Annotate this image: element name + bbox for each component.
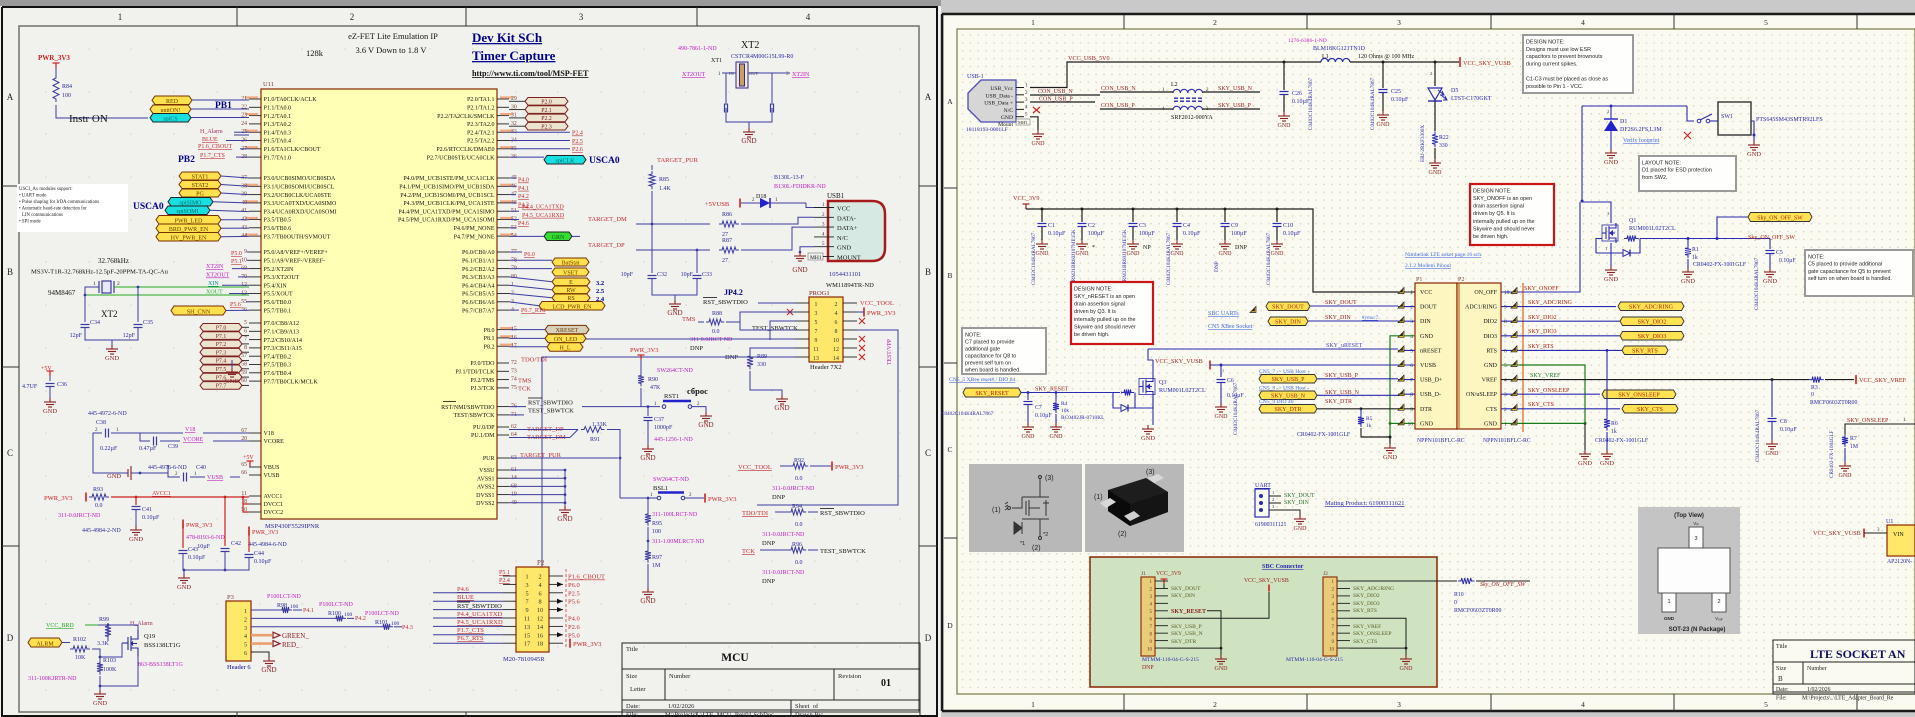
ground C32 C33 xyxy=(669,300,681,309)
svg-text:C37: C37 xyxy=(654,417,664,423)
wire P3 pin6 gnd xyxy=(251,652,269,657)
svg-text:R93: R93 xyxy=(93,487,103,493)
svg-text:3.3K: 3.3K xyxy=(97,641,110,647)
svg-text:SKY_ONSLEEP: SKY_ONSLEEP xyxy=(1528,388,1570,394)
svg-text:01: 01 xyxy=(881,678,891,689)
capacitor C26 xyxy=(1283,62,1285,90)
svg-text:PUR: PUR xyxy=(483,456,495,462)
svg-text:1/02/2026: 1/02/2026 xyxy=(668,703,695,710)
svg-text:driven by Q3. It is: driven by Q3. It is xyxy=(1074,309,1116,315)
red dashed highlight P2 xyxy=(565,569,567,647)
svg-text:P8.2: P8.2 xyxy=(484,344,495,350)
svg-text:12pF: 12pF xyxy=(123,333,136,339)
port SKY_DTR xyxy=(1259,405,1317,414)
svg-text:be driven high.: be driven high. xyxy=(1074,332,1109,338)
svg-text:SKY_DOUT: SKY_DOUT xyxy=(1325,300,1357,306)
svg-text:P2.2: P2.2 xyxy=(541,116,552,122)
svg-text:C5: C5 xyxy=(1776,250,1783,256)
svg-text:P6.6/CB6/A6: P6.6/CB6/A6 xyxy=(462,300,495,306)
capacitor C33 10pF xyxy=(693,276,702,279)
svg-text:SH_CNN: SH_CNN xyxy=(187,309,211,315)
svg-text:J1: J1 xyxy=(1141,571,1146,577)
svg-text:ADC1/RING: ADC1/RING xyxy=(1465,305,1498,311)
svg-text:0.10µF: 0.10µF xyxy=(1183,231,1201,237)
svg-text:75: 75 xyxy=(511,385,517,391)
ground C3 xyxy=(1127,240,1139,249)
svg-text:self turn on when board is han: self turn on when board is handled. xyxy=(1808,276,1892,282)
capacitor C34 xyxy=(81,325,90,328)
net SKY_RTS xyxy=(1519,349,1622,351)
svg-text:Timer Capture: Timer Capture xyxy=(472,48,556,63)
ground C7 xyxy=(1022,423,1034,432)
svg-text:DIO3: DIO3 xyxy=(1483,334,1497,340)
svg-text:P4.6/PM_NONE: P4.6/PM_NONE xyxy=(454,226,495,232)
svg-text:TARGET_PUR: TARGET_PUR xyxy=(657,157,699,164)
svg-text:CN5_5 XBee reset# / DIO 84: CN5_5 XBee reset# / DIO 84 xyxy=(949,377,1016,383)
svg-text:NPPN101BFLC-RC: NPPN101BFLC-RC xyxy=(1417,438,1465,444)
svg-text:DNP: DNP xyxy=(1142,665,1154,671)
svg-text:nRESET: nRESET xyxy=(1420,348,1442,354)
svg-text:Number: Number xyxy=(669,673,691,680)
svg-text:P2.5: P2.5 xyxy=(568,590,580,597)
svg-text:*: * xyxy=(1092,245,1095,251)
svg-text:1276-6386-1-ND: 1276-6386-1-ND xyxy=(1288,38,1327,44)
left sheet top ruler ticks xyxy=(2,7,937,717)
svg-text:GND: GND xyxy=(837,245,851,252)
ground Q1 xyxy=(1605,266,1617,275)
svg-text:TMS: TMS xyxy=(682,316,696,323)
wires USB1 pins xyxy=(806,203,814,208)
svg-text:prevent self turn on: prevent self turn on xyxy=(965,360,1011,366)
resistor R5 1k xyxy=(1360,409,1362,414)
ground R7 xyxy=(1839,462,1851,471)
svg-text:2: 2 xyxy=(1410,305,1413,311)
svg-text:6: 6 xyxy=(244,651,247,657)
wire R84 to spiCS net xyxy=(56,105,148,118)
svg-text:C0402C104K4RAL7867: C0402C104K4RAL7867 xyxy=(1754,257,1760,310)
svg-text:P6.7_RTS: P6.7_RTS xyxy=(521,308,545,314)
svg-text:VCC_3V9: VCC_3V9 xyxy=(1156,571,1181,577)
svg-text:3.6 V Down to 1.8 V: 3.6 V Down to 1.8 V xyxy=(355,45,427,55)
svg-text:2: 2 xyxy=(117,281,120,287)
svg-text:U1: U1 xyxy=(1886,519,1893,525)
svg-text:SKY_VREF: SKY_VREF xyxy=(1530,373,1561,379)
svg-text:R7: R7 xyxy=(1850,436,1857,442)
right ruler ticks xyxy=(944,15,1857,711)
port PWR_LED xyxy=(156,216,221,225)
svg-text:M:\Projects\..\LTE_MCU_Rev01.S: M:\Projects\..\LTE_MCU_Rev01.SchDoc xyxy=(665,712,774,717)
svg-text:1: 1 xyxy=(815,302,818,308)
svg-text:VSET: VSET xyxy=(563,270,578,276)
no-connect x marks PROG1 xyxy=(787,309,793,315)
ground RST1 xyxy=(700,412,712,421)
svg-text:GND: GND xyxy=(698,421,713,429)
svg-text:445-4984-2-ND: 445-4984-2-ND xyxy=(82,528,121,534)
svg-text:P7.1: P7.1 xyxy=(216,334,227,340)
svg-text:AVCC1: AVCC1 xyxy=(152,491,171,497)
svg-text:P2.6: P2.6 xyxy=(568,624,580,631)
svg-text:GND: GND xyxy=(1294,526,1308,532)
svg-text:P7.2: P7.2 xyxy=(216,342,227,348)
svg-text:0.0: 0.0 xyxy=(795,560,803,566)
svg-text:4: 4 xyxy=(1581,700,1585,709)
svg-text:P2.4: P2.4 xyxy=(499,578,510,584)
svg-text:16: 16 xyxy=(537,632,543,639)
svg-text:DVSS1: DVSS1 xyxy=(476,493,494,499)
ground crystal xyxy=(106,345,118,354)
svg-text:H_Alarm: H_Alarm xyxy=(130,621,153,627)
svg-text:M:\Projects\..\LTE_Adapter_Boa: M:\Projects\..\LTE_Adapter_Board_Re xyxy=(1802,696,1894,702)
svg-text:5: 5 xyxy=(815,320,818,326)
svg-text:490-7861-1-ND: 490-7861-1-ND xyxy=(678,46,717,52)
note C5 box xyxy=(1805,250,1913,296)
resonator XT1 symbol xyxy=(736,62,748,88)
svg-text:(2): (2) xyxy=(1032,545,1041,552)
svg-text:0.10µF: 0.10µF xyxy=(1048,231,1066,237)
svg-text:TEST_SBWTCK: TEST_SBWTCK xyxy=(752,325,798,332)
svg-text:SKY_ADC/RING: SKY_ADC/RING xyxy=(1629,305,1674,311)
svg-text:VCORE: VCORE xyxy=(183,437,204,443)
port group P7.4-P7.7 xyxy=(200,357,242,365)
svg-text:R10: R10 xyxy=(1454,592,1464,598)
svg-text:P6.2/CB2/A2: P6.2/CB2/A2 xyxy=(462,267,495,273)
ground R22 xyxy=(1429,159,1441,168)
svg-text:SKY_ONOFF: SKY_ONOFF xyxy=(1524,286,1559,292)
design note SKY_ONOFF box xyxy=(1470,184,1554,245)
svg-text:0.0: 0.0 xyxy=(795,522,803,528)
switch SW1 PTS645SM43SMTR92LFS xyxy=(1687,106,1694,121)
svg-text:B130L-FDIDKR-ND: B130L-FDIDKR-ND xyxy=(774,184,826,190)
svg-text:1000pF: 1000pF xyxy=(654,425,673,431)
gate resistor Q1 xyxy=(1624,236,1639,242)
svg-text:24: 24 xyxy=(241,121,247,127)
svg-text:P5.4/XIN: P5.4/XIN xyxy=(264,283,288,289)
ground P3 xyxy=(263,657,275,666)
svg-text:LIN communications: LIN communications xyxy=(22,213,63,218)
capacitor C9 xyxy=(1224,208,1227,211)
svg-text:C33: C33 xyxy=(702,272,712,278)
svg-text:Size: Size xyxy=(1776,666,1787,672)
svg-text:A: A xyxy=(947,97,953,106)
svg-text:MOUNT: MOUNT xyxy=(837,255,861,262)
svg-text:SKY_DIO2: SKY_DIO2 xyxy=(1353,593,1380,599)
svg-text:Drawn By:: Drawn By: xyxy=(795,712,824,717)
svg-text:74: 74 xyxy=(511,377,517,383)
svg-text:C1-C3 must be placed as close: C1-C3 must be placed as close as xyxy=(1526,76,1608,82)
svg-text:SW264CT-ND: SW264CT-ND xyxy=(657,368,693,374)
svg-text:SOT-23 (N Package): SOT-23 (N Package) xyxy=(1669,627,1726,633)
svg-text:P3.0/UCB0SIMO/UCB0SDA: P3.0/UCB0SIMO/UCB0SDA xyxy=(264,176,337,182)
ground C9 xyxy=(1219,240,1231,249)
wire usb branch xyxy=(651,223,654,226)
svg-text:SKY_DOUT: SKY_DOUT xyxy=(1272,305,1304,311)
wires XT1 xyxy=(722,72,736,74)
port spiCS xyxy=(150,114,191,123)
wire C38 to V18 xyxy=(111,432,183,434)
svg-text:P3.7/TB0OUTH/SVMOUT: P3.7/TB0OUTH/SVMOUT xyxy=(264,234,331,240)
svg-text:• SPI mode: • SPI mode xyxy=(19,220,41,225)
svg-text:DATA-: DATA- xyxy=(837,215,856,222)
resistor R103 xyxy=(97,660,103,675)
ground crystal area2 xyxy=(231,360,233,368)
svg-text:10: 10 xyxy=(833,338,839,344)
svg-text:P1.1/TA0.0: P1.1/TA0.0 xyxy=(264,106,292,112)
svg-text:GND: GND xyxy=(1036,251,1050,257)
svg-text:11: 11 xyxy=(813,347,819,353)
svg-text:ON_OFF: ON_OFF xyxy=(1474,290,1497,296)
svg-text:P1.4/TA0.3: P1.4/TA0.3 xyxy=(264,130,292,136)
svg-text:GND: GND xyxy=(43,408,57,415)
svg-text:GND: GND xyxy=(105,355,119,362)
svg-text:gate capacitance for Q5 to pre: gate capacitance for Q5 to prevent xyxy=(1808,269,1891,275)
port SKY_DIN xyxy=(1268,317,1308,326)
ground P2 gnd1 xyxy=(1579,450,1591,459)
svg-text:VCC_USB_5V0: VCC_USB_5V0 xyxy=(1068,55,1110,62)
svg-text:2: 2 xyxy=(1213,700,1217,709)
svg-text:P100LCT-ND: P100LCT-ND xyxy=(319,602,353,608)
svg-text:P6.3/CB3/A3: P6.3/CB3/A3 xyxy=(462,275,495,281)
svg-text:VCC_3V9: VCC_3V9 xyxy=(1013,195,1039,202)
svg-text:SBC UARTs: SBC UARTs xyxy=(1208,311,1239,317)
svg-text:http://www.ti.com/tool/MSP-FET: http://www.ti.com/tool/MSP-FET xyxy=(472,69,589,78)
svg-text:8: 8 xyxy=(244,345,247,351)
svg-text:additional gate: additional gate xyxy=(965,346,1000,352)
svg-text:XRESET: XRESET xyxy=(556,328,579,334)
svg-text:0.0: 0.0 xyxy=(95,503,103,509)
svg-text:USB_Vcc: USB_Vcc xyxy=(990,86,1013,92)
svg-text:120 Ohms @ 100 MHz: 120 Ohms @ 100 MHz xyxy=(1358,54,1415,60)
svg-text:STAT2: STAT2 xyxy=(192,183,209,189)
svg-text:NOTE:: NOTE: xyxy=(1808,254,1824,260)
svg-text:1: 1 xyxy=(118,12,123,22)
port SKY_USB_P xyxy=(1259,375,1317,384)
svg-text:P100LCT-ND: P100LCT-ND xyxy=(365,611,399,617)
capacitor C4 xyxy=(1176,208,1179,211)
svg-text:RUM001L02T2CL: RUM001L02T2CL xyxy=(1629,226,1676,232)
svg-text:59: 59 xyxy=(241,370,247,376)
svg-text:GND: GND xyxy=(792,266,807,274)
svg-text:GND: GND xyxy=(741,137,756,145)
svg-text:GND: GND xyxy=(1377,122,1391,128)
svg-text:P6.4/CB4/A4: P6.4/CB4/A4 xyxy=(462,283,495,289)
svg-text:65: 65 xyxy=(241,462,247,468)
svg-text:XT2OUT: XT2OUT xyxy=(206,273,230,279)
svg-text:GND: GND xyxy=(1600,460,1614,467)
svg-text:1: 1 xyxy=(1222,368,1224,373)
svg-text:SKY_CTS: SKY_CTS xyxy=(1637,407,1663,413)
wire crystal left xyxy=(85,287,99,295)
svg-text:CR0402-FX-1004GLF: CR0402-FX-1004GLF xyxy=(1829,430,1835,478)
svg-text:P5.0: P5.0 xyxy=(231,251,242,257)
U11 right VSS pins xyxy=(497,469,509,471)
svg-text:GND: GND xyxy=(1022,434,1036,440)
svg-text:Q3: Q3 xyxy=(1159,380,1166,386)
svg-text:DVCC1: DVCC1 xyxy=(264,502,284,508)
svg-text:LAYOUT NOTE:: LAYOUT NOTE: xyxy=(1642,160,1681,166)
svg-text:Instr ON: Instr ON xyxy=(69,113,108,125)
svg-text:3: 3 xyxy=(579,12,584,22)
svg-text:GND: GND xyxy=(1215,666,1229,672)
svg-text:VCC: VCC xyxy=(837,206,850,213)
left sheet inner border xyxy=(19,26,919,712)
port STAT1 xyxy=(179,172,221,180)
svg-text:RUM001L02T2CL: RUM001L02T2CL xyxy=(1159,388,1206,394)
svg-text:C36: C36 xyxy=(57,382,67,388)
wire uart pin3 gnd xyxy=(1281,510,1300,515)
svg-text:311-100KJRTR-ND: 311-100KJRTR-ND xyxy=(28,676,77,682)
svg-text:9: 9 xyxy=(1504,305,1507,311)
port spiSIMO xyxy=(168,198,213,207)
svg-text:5: 5 xyxy=(1410,348,1413,354)
svg-text:SKY_RESET: SKY_RESET xyxy=(975,391,1009,397)
svg-text:RST_SBWTDIO: RST_SBWTDIO xyxy=(703,299,748,306)
U11 right pins P8 group xyxy=(497,329,509,331)
svg-text:Sheet of: Sheet of xyxy=(795,703,819,710)
svg-text:C: C xyxy=(7,448,13,458)
transistor Q19 BSS138LT1G xyxy=(122,630,138,656)
J2 wires xyxy=(1350,580,1457,582)
svg-text:*2: *2 xyxy=(1043,532,1048,538)
svg-text:MCU: MCU xyxy=(721,652,749,664)
svg-text:P1.3/TA0.2: P1.3/TA0.2 xyxy=(264,122,292,128)
svg-text:internally pulled up on the: internally pulled up on the xyxy=(1473,219,1534,225)
svg-text:P2.6/RTCCLK/DMAE0: P2.6/RTCCLK/DMAE0 xyxy=(436,147,494,153)
ground USB1 xyxy=(800,247,814,252)
svg-text:10k: 10k xyxy=(1061,408,1069,414)
svg-text:C1: C1 xyxy=(1048,223,1055,229)
svg-text:3: 3 xyxy=(244,626,247,632)
MCU U11 MSP430F5529IPNR body xyxy=(261,89,497,519)
svg-text:C4: C4 xyxy=(1183,223,1190,229)
svg-text:ON/uSLEEP: ON/uSLEEP xyxy=(1466,392,1498,398)
svg-text:MSP430F5529IPNR: MSP430F5529IPNR xyxy=(265,523,320,530)
svg-text:0.10µF: 0.10µF xyxy=(142,515,160,521)
svg-text:1: 1 xyxy=(1504,421,1507,427)
svg-text:R102: R102 xyxy=(73,637,86,643)
wires Q19 xyxy=(108,625,138,641)
svg-text:P5.5/XOUT: P5.5/XOUT xyxy=(264,292,294,298)
svg-text:10118193-0001LF: 10118193-0001LF xyxy=(966,127,1008,133)
svg-text:C39: C39 xyxy=(168,444,178,450)
svg-text:SKY_RTS: SKY_RTS xyxy=(1632,349,1658,355)
svg-text:P8.1: P8.1 xyxy=(484,336,495,342)
capacitor XT1 right xyxy=(771,104,774,113)
svg-text:P7.4: P7.4 xyxy=(216,359,227,365)
svg-text:SKY_USB_P: SKY_USB_P xyxy=(1271,377,1305,383)
ground P1 xyxy=(1384,444,1396,453)
port H_L xyxy=(547,343,583,351)
svg-text:9: 9 xyxy=(244,249,247,255)
svg-text:P7.3/CB11/A15: P7.3/CB11/A15 xyxy=(264,346,302,352)
left title block xyxy=(622,643,920,717)
ground Q3 xyxy=(1142,425,1154,434)
left schematic sheet background xyxy=(0,0,941,717)
svg-text:Revision: Revision xyxy=(838,673,862,680)
svg-text:C: C xyxy=(925,448,931,458)
svg-text:Header 7X2: Header 7X2 xyxy=(810,364,842,371)
ground R6 xyxy=(1601,450,1613,459)
svg-text:CN5 XBee Socket: CN5 XBee Socket xyxy=(1208,324,1253,330)
resistor R97 1M xyxy=(645,548,651,563)
svg-text:330: 330 xyxy=(1439,143,1448,149)
svg-text:311-0.0JRCT-ND: 311-0.0JRCT-ND xyxy=(58,513,101,519)
svg-text:J2: J2 xyxy=(1323,571,1328,577)
U11 right pins PJ group xyxy=(497,362,509,364)
svg-text:U11: U11 xyxy=(263,81,274,88)
svg-text:12pF: 12pF xyxy=(70,333,83,339)
svg-text:2: 2 xyxy=(1504,407,1507,413)
svg-text:DNP: DNP xyxy=(762,578,775,585)
svg-text:SKY_RESET: SKY_RESET xyxy=(1035,387,1069,393)
svg-text:SW1: SW1 xyxy=(1721,114,1733,120)
U11 right pins P6 group xyxy=(497,251,509,253)
svg-text:A: A xyxy=(925,92,932,102)
svg-text:1: 1 xyxy=(1031,18,1035,27)
svg-text:BSL1: BSL1 xyxy=(653,485,668,492)
svg-text:7: 7 xyxy=(525,599,528,606)
svg-text:1: 1 xyxy=(1667,599,1670,605)
svg-text:1k: 1k xyxy=(1366,423,1372,429)
svg-text:P7.0: P7.0 xyxy=(216,326,227,332)
svg-text:17: 17 xyxy=(524,641,530,648)
svg-text:(1): (1) xyxy=(1094,494,1103,501)
svg-text:SKY_nRESET is an open: SKY_nRESET is an open xyxy=(1074,294,1135,300)
svg-text:TDO/TDI: TDO/TDI xyxy=(742,510,768,517)
svg-text:5: 5 xyxy=(1764,700,1768,709)
svg-text:RMCF0603ZT0R00: RMCF0603ZT0R00 xyxy=(1810,400,1857,406)
svg-text:B: B xyxy=(947,271,952,280)
svg-text:C0402C104K4RAL7867: C0402C104K4RAL7867 xyxy=(1370,77,1376,130)
svg-text:P4.7/PM_NONE: P4.7/PM_NONE xyxy=(454,234,495,240)
svg-text:Date:: Date: xyxy=(626,703,640,710)
capacitor C25 xyxy=(1382,62,1384,88)
svg-text:P6.5/CB5/A5: P6.5/CB5/A5 xyxy=(462,292,495,298)
svg-text:1k: 1k xyxy=(1692,255,1698,261)
svg-text:311-0.0JRCT-ND: 311-0.0JRCT-ND xyxy=(772,486,815,492)
svg-text:P1.5/TA0.4: P1.5/TA0.4 xyxy=(264,139,292,145)
svg-text:SKY_DIN: SKY_DIN xyxy=(1171,593,1195,599)
svg-text:CON_USB_P: CON_USB_P xyxy=(1039,97,1073,103)
switch RST1 symbol xyxy=(662,405,666,409)
svg-text:ON_LED: ON_LED xyxy=(554,337,578,343)
svg-text:DNP: DNP xyxy=(772,494,785,501)
svg-text:0.47µF: 0.47µF xyxy=(139,446,157,452)
power VCC_SKY_VREF xyxy=(1855,375,1857,384)
svg-text:MS3V-T1R-32.768kHz-12.5pF-20PP: MS3V-T1R-32.768kHz-12.5pF-20PPM-TA-QC-Au xyxy=(31,269,169,276)
svg-text:Designs must use low ESR: Designs must use low ESR xyxy=(1526,47,1591,53)
U11 right PU pins xyxy=(497,426,509,428)
svg-text:SKY_DIO3: SKY_DIO3 xyxy=(1528,329,1557,335)
wire CON_USB_N to L2 xyxy=(1100,91,1173,93)
svg-text:GND: GND xyxy=(1484,363,1498,369)
svg-text:P3: P3 xyxy=(227,594,234,601)
port Sky_ON_OFF_SW xyxy=(1717,217,1748,239)
svg-text:C0402C104K4RAL7867: C0402C104K4RAL7867 xyxy=(1166,232,1172,285)
svg-text:Sky_ON_OFF_SW: Sky_ON_OFF_SW xyxy=(1757,216,1803,222)
svg-text:when board is handled.: when board is handled. xyxy=(964,367,1021,373)
svg-text:GND: GND xyxy=(640,454,655,462)
svg-text:SKY_DOUT: SKY_DOUT xyxy=(1284,493,1315,499)
svg-text:100µF: 100µF xyxy=(1139,231,1155,237)
svg-text:9: 9 xyxy=(1410,407,1413,413)
port GRN xyxy=(544,232,572,241)
svg-text:P5.0: P5.0 xyxy=(568,632,580,639)
svg-text:P5.0/A8/VREF+/VEREF+: P5.0/A8/VREF+/VEREF+ xyxy=(264,250,329,256)
svg-text:P2.3: P2.3 xyxy=(541,124,552,130)
transistor Q1 RUM001L02T2CL xyxy=(1582,201,1611,223)
svg-text:10µF: 10µF xyxy=(197,544,210,550)
svg-text:drain assertion signal: drain assertion signal xyxy=(1074,302,1125,308)
